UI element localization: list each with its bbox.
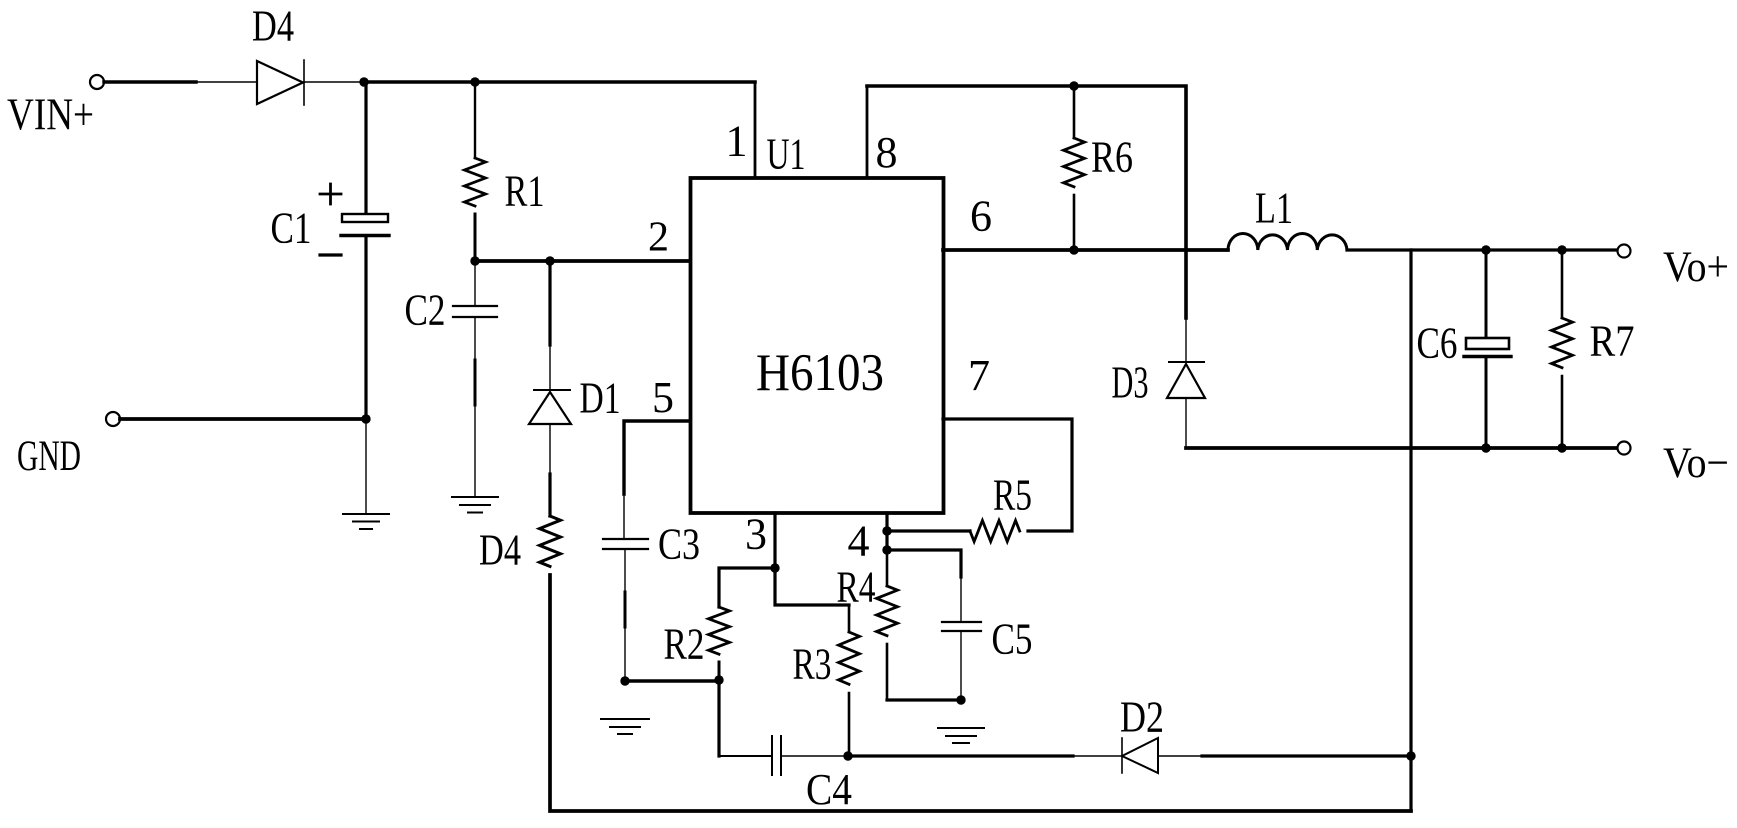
diode D3 [1167,318,1205,448]
svg-text:D1: D1 [580,374,621,423]
svg-text:GND: GND [17,433,81,480]
svg-text:R1: R1 [505,167,545,216]
resistor R7 [1552,250,1573,448]
svg-text:VIN+: VIN+ [7,90,94,140]
capacitor C6 [1464,250,1511,448]
ground (C5) [938,728,984,743]
node R1/C2 [470,256,479,265]
wire pin3 to R3 [775,568,849,605]
wire pin 1 vertical [754,82,757,177]
wire pin3 to R2 top [719,568,775,607]
capacitor C1 [341,82,389,419]
wire pin 5 to C3 [624,421,689,494]
wire pin 4 [885,513,888,550]
node GND/C1 [361,414,370,423]
wire C4 to D2 [848,754,1073,757]
node R6 bottom [1069,245,1078,254]
diode D4 (top) [257,60,304,105]
capacitor C5 [942,622,981,700]
terminal GND [106,412,120,426]
svg-text:C1: C1 [271,204,312,253]
svg-text:R5: R5 [993,471,1032,520]
wire top rail to pin 1 [364,80,755,84]
minus sign C1 [320,253,341,256]
wire D1 to D4 [549,424,551,474]
node C6 bottom [1481,443,1490,452]
svg-text:5: 5 [652,373,674,422]
wire C3 to R2 [625,679,719,682]
diode D2 [1122,738,1158,773]
svg-text:D2: D2 [1120,693,1164,742]
wire pin 8 to top right rail [866,88,869,177]
ground (C1) [343,514,389,529]
diode D1 [529,390,571,424]
wire pin 3 [773,513,776,568]
svg-text:R7: R7 [1590,317,1635,366]
wire pin4 to C5 [887,550,961,577]
svg-text:3: 3 [745,510,767,559]
svg-text:H6103: H6103 [756,344,884,402]
capacitor C3 [603,539,648,681]
terminal Vo+ [1618,245,1631,258]
svg-text:4: 4 [848,517,870,566]
svg-text:R2: R2 [664,620,705,669]
svg-text:D3: D3 [1112,357,1149,408]
wire right return vertical [1409,250,1412,811]
node R7 bottom [1557,443,1566,452]
resistor R2 [709,607,730,654]
node pin 4 lower [882,545,891,554]
node pin 3 [770,563,779,572]
node pin 4 upper [882,526,891,535]
svg-text:R3: R3 [793,640,832,689]
node R2 bottom [714,675,723,684]
resistor D4 (lower) [540,516,561,566]
wire pin4 to R5 [887,529,970,532]
ground (C2) [452,497,498,513]
wire D1 top lead [548,261,551,345]
svg-text:U1: U1 [767,130,806,179]
node at R1 top [470,77,479,86]
wire to ground symbol [365,419,367,514]
wire L1 to Vo+ [1347,248,1617,251]
svg-text:C6: C6 [1417,319,1458,368]
capacitor C2 [453,261,497,497]
wire Vo- rail [1186,446,1617,450]
wire pin 2 rail [475,259,691,263]
wire R2 bottom [718,662,721,680]
capacitor C4 [772,736,848,775]
resistor R6 [1064,86,1085,250]
svg-text:8: 8 [876,128,898,177]
wire pin 6 to L1 [943,248,1228,252]
plus sign C1 [320,184,341,204]
resistor R5 [970,521,1020,542]
wire GND to C1 bottom [120,417,366,421]
svg-text:6: 6 [970,192,992,241]
svg-text:R4: R4 [837,563,876,612]
node R7 top [1557,245,1566,254]
resistor R1 [465,82,486,261]
resistor R4 [877,550,898,700]
svg-text:C5: C5 [992,615,1033,664]
svg-text:7: 7 [968,351,990,400]
svg-text:R6: R6 [1091,133,1133,182]
wire top right rail to D3 [867,86,1186,318]
terminal Vo- [1618,442,1631,455]
wire D4 bottom to bottom rail [550,575,1411,811]
ground (C3) [601,719,649,734]
svg-text:C4: C4 [806,765,852,814]
wire R5 to pin 7 [943,419,1072,531]
node C6 top [1481,245,1490,254]
wire D4 cathode to node [304,81,360,83]
svg-text:C3: C3 [658,520,700,569]
terminal VIN+ [90,75,104,89]
node C3 bottom [620,676,629,685]
node D1 top [545,256,554,265]
node D2 right [1406,751,1415,760]
svg-text:1: 1 [726,117,748,166]
svg-text:2: 2 [648,215,669,261]
inductor L1 [1228,233,1347,250]
wire D2 to right vertical [1158,755,1202,757]
svg-text:Vo+: Vo+ [1663,244,1729,291]
node C5 bottom [956,695,965,704]
svg-text:C2: C2 [405,286,446,335]
op-amp U1 chip body [691,178,944,513]
svg-text:D4: D4 [252,2,294,51]
node C4 right [843,751,852,760]
svg-text:L1: L1 [1255,184,1293,233]
svg-text:Vo−: Vo− [1663,440,1729,487]
node at C1 top [359,77,368,86]
wire R4 to C5 bottom [887,698,961,701]
resistor R3 [839,605,860,756]
svg-text:D4: D4 [479,526,521,575]
wire VIN+ to D4 anode [104,80,196,83]
node R6 top [1069,81,1078,90]
wire R2 to C4 [717,680,720,756]
